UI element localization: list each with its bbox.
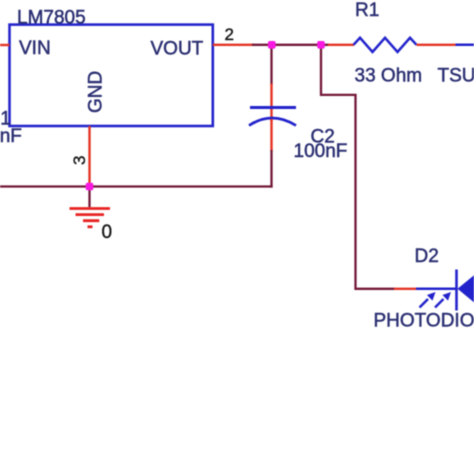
capacitor C2 top pin stub (red) [270, 84, 272, 108]
svg-text:3: 3 [70, 156, 89, 165]
svg-text:VIN: VIN [19, 38, 51, 59]
svg-text:VOUT: VOUT [151, 39, 204, 60]
wire rail to ground symbol (maroon) [88, 187, 90, 207]
wire C2 branch vertical (maroon) [270, 45, 272, 85]
ground symbol 0 (bar 2) [76, 213, 105, 216]
junction dot at GND pin / ground rail [86, 183, 94, 191]
U1 pin 1 VIN stub [0, 44, 10, 46]
resistor R1 zigzag [354, 38, 417, 52]
svg-text:100nF: 100nF [0, 126, 22, 147]
photodiode D2 cathode bar [455, 270, 458, 311]
svg-text:LM7805: LM7805 [17, 8, 86, 29]
wire branch to photodiode (maroon jog) [321, 45, 395, 289]
svg-text:D2: D2 [415, 246, 439, 267]
photodiode D2 left pin stub (red) [394, 288, 416, 290]
ground symbol 0 (bar 1) [70, 207, 111, 210]
svg-text:TSUS4400: TSUS4400 [438, 66, 474, 87]
ground symbol 0 (bar 4) [88, 225, 93, 228]
capacitor C2 curved bottom plate [249, 118, 296, 126]
photodiode D2 anode lead (blue) [416, 288, 457, 291]
svg-text:33 Ohm: 33 Ohm [355, 66, 423, 87]
svg-text:GND: GND [86, 71, 107, 113]
photodiode light arrow 2 [435, 292, 451, 308]
capacitor C2 center pin stub between plates (red) [270, 107, 272, 121]
photodiode light arrow 1 [420, 292, 436, 308]
ground rail wire (maroon) [0, 185, 273, 187]
svg-text:0: 0 [102, 222, 113, 243]
svg-text:R1: R1 [355, 0, 379, 21]
wire C2 bottom to ground rail (maroon) [270, 150, 272, 188]
resistor R1 right pin stub (red) [417, 44, 456, 46]
resistor R1 left pin stub (red) [328, 44, 354, 46]
U1 pin 3 GND stub [88, 126, 90, 186]
wire to TSUS emitter (blue lead, clipped) [456, 44, 474, 47]
voltage regulator U1 LM7805 body [10, 25, 213, 126]
svg-text:100nF: 100nF [294, 141, 348, 162]
capacitor C2 top plate [250, 106, 296, 109]
junction dot at VOUT / C2 branch [268, 41, 276, 49]
junction dot at R1 / photodiode branch [317, 41, 325, 49]
svg-text:PHOTODIODE: PHOTODIODE [374, 311, 474, 332]
capacitor C2 bottom pin stub (red) [270, 119, 272, 151]
photodiode D2 triangle [458, 269, 474, 309]
svg-text:2: 2 [225, 25, 234, 44]
U1 pin 2 VOUT stub [213, 44, 254, 46]
ground symbol 0 (bar 3) [83, 219, 99, 222]
wire VOUT node to R1 (maroon) [252, 44, 329, 46]
